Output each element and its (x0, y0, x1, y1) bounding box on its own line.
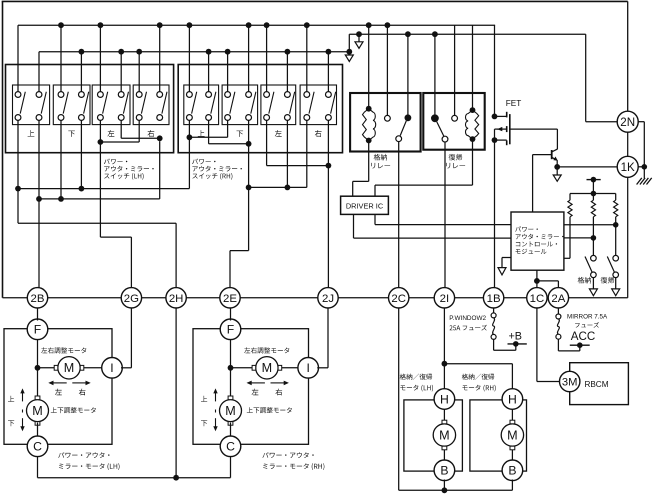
connector 2G (121, 288, 141, 308)
switch unit box 下 (222, 85, 258, 125)
node bus1 junction (187, 22, 193, 28)
svg-text:2A: 2A (551, 293, 565, 305)
svg-text:2B: 2B (31, 293, 45, 305)
wire LH-Rsw1 drop (138, 120, 140, 142)
switch 復帰 (613, 255, 619, 261)
node on RH-Rsw2 column (326, 163, 332, 169)
wire FET source to 1B (494, 140, 496, 288)
wire fuse to +B (493, 339, 495, 350)
node bus2 junction (285, 49, 291, 55)
wire LH-Usw2 drop / 2B column (38, 120, 40, 287)
wire switch feed from bus2 (138, 52, 140, 92)
wire motor common bus (38, 477, 231, 479)
switch 格納 (591, 255, 597, 261)
wire switch feed from bus1 (60, 25, 62, 92)
node 2H bus junction (173, 475, 179, 481)
switch unit label 下 (237, 131, 244, 137)
node retract feed junction (442, 361, 448, 367)
label 格納 (578, 277, 591, 284)
wire Q1 base from module (533, 154, 552, 156)
wire from 2B up the left edge (2, 1, 4, 297)
switch contact pair (36, 92, 42, 98)
wire module jog to 2A (537, 280, 559, 282)
wire RH-Rsw1 drop to net-C (306, 120, 308, 187)
wire RH-Usw2 to RH-Dsw2 link (209, 143, 249, 145)
node RH link1 junction (187, 134, 193, 140)
svg-text:2H: 2H (169, 293, 184, 305)
connector 1K (617, 156, 638, 177)
wire retract bottom bus (399, 489, 513, 491)
fuse MIRROR 7.5A (557, 308, 559, 314)
resistor R2 (592, 194, 594, 201)
svg-text:DRIVER IC: DRIVER IC (346, 201, 384, 210)
wire DRIVER IC out2 to module (374, 214, 376, 224)
wire relay K2 output to 2I (444, 142, 446, 288)
svg-text:I: I (307, 361, 310, 375)
wire 2N to 1K (627, 132, 629, 156)
switch unit box 左 (92, 85, 130, 125)
switch contact pair (58, 92, 64, 98)
wire 2H column down (175, 308, 177, 478)
svg-text:1C: 1C (530, 293, 545, 305)
wire RH-Usw1 to RH-Dsw1 link (189, 136, 227, 138)
label 上下調整モータ RH (247, 407, 292, 413)
wire net-A horizontal (y188.6) (18, 188, 189, 190)
wire RH-Usw2 drop (208, 120, 210, 143)
wire bus2 left section (39, 51, 349, 53)
label パワー・アウタ・ミラー・モータ (RH) (262, 452, 313, 458)
switch contact pair (118, 92, 124, 98)
switch unit box 下 (53, 85, 90, 125)
connector 2I (434, 288, 454, 308)
svg-text:2J: 2J (322, 293, 334, 305)
connector 2A (548, 288, 568, 308)
wire LH-Dsw2 drop to net-A (80, 120, 82, 188)
wire module to 1C (536, 270, 538, 287)
motor M (left-right) RH (256, 357, 278, 379)
node bus1 junction (98, 22, 104, 28)
page arrow below bus2 corner (348, 52, 350, 55)
node net-A at x18 (15, 186, 21, 192)
relay K2 NC contact (452, 115, 458, 121)
power outer mirror switch (RH) box (178, 65, 342, 153)
wire LH-Dsw1 drop to net-B (60, 120, 62, 198)
wire bus1 drop to FET drain (494, 25, 496, 116)
node retract bus junction (442, 487, 448, 493)
wire C(LH) to bottom bus (37, 456, 39, 477)
retract motor box LH (404, 400, 463, 471)
switch unit box 左 (261, 85, 296, 125)
label 左右調整モータ RH (244, 347, 289, 353)
connector 2N (617, 111, 638, 132)
switch unit label 右 (148, 130, 155, 137)
terminal C RH (220, 436, 241, 457)
wire bus2 upper section (349, 33, 585, 35)
connector 2B (27, 288, 47, 308)
terminal I RH (298, 358, 319, 379)
switch unit label 左 (108, 130, 115, 137)
switch contact pair (98, 92, 104, 98)
relay K2 output contact (442, 136, 448, 142)
wire DRIVER IC out1 to module (353, 214, 355, 238)
wire 2C column down (398, 308, 400, 490)
wire K1 coil to DRIVER IC (368, 141, 370, 182)
wire jog to 2G (100, 236, 131, 238)
svg-text:3M: 3M (562, 377, 578, 389)
switch contact pair (264, 92, 270, 98)
retract motor box RH (470, 400, 527, 471)
node module output junction (534, 278, 540, 284)
wire M to B LH (443, 447, 445, 462)
node bus2 junction (79, 49, 85, 55)
power tap bar (587, 179, 601, 181)
wire switch feed from bus1 (266, 25, 268, 92)
terminal C LH (27, 436, 48, 457)
ground symbol (637, 178, 642, 185)
svg-text:M: M (32, 404, 43, 418)
wire down to connector 2N (627, 1, 629, 112)
node FET drain junction (492, 114, 498, 120)
wire fuse to ACC (557, 339, 559, 351)
wire H to M RH (511, 408, 513, 424)
wire emitter to 1K (557, 166, 618, 168)
node F column junction (228, 365, 234, 371)
FET Q2 symbol (495, 115, 507, 117)
svg-text:2C: 2C (391, 293, 406, 305)
wire switch feed from bus1 (99, 25, 101, 92)
wire net-C horizontal (y187.4) (249, 186, 307, 188)
wire relay K1 coil feed (368, 25, 370, 106)
wire 1K right lead (638, 166, 644, 168)
node ACC tap (577, 342, 583, 348)
switch unit label 右 (315, 130, 322, 137)
RBCM box (570, 363, 629, 405)
transistor Q1 (551, 150, 553, 159)
terminal F RH (220, 319, 241, 340)
switch contact pair (246, 92, 252, 98)
label 格納リレー (374, 154, 387, 161)
svg-text:M: M (262, 361, 273, 375)
node bus1 K1 coil tap (366, 22, 372, 28)
node bus2 corner junction (346, 49, 352, 55)
wire 2N right lead to ground node (638, 121, 644, 123)
node bus2 junction (118, 49, 124, 55)
wire LR motor to I (278, 367, 299, 369)
switch unit box 上 (13, 85, 50, 125)
switch unit label 上 (28, 130, 35, 136)
svg-text:2N: 2N (620, 116, 635, 129)
terminal B LH (434, 460, 455, 481)
node bus2 arrow tap (356, 31, 362, 37)
switch contact pair (157, 92, 163, 98)
wire switch feed from bus2 (120, 52, 122, 92)
connector 2E (220, 288, 240, 308)
relay K1 common contact (405, 114, 412, 121)
wire FET gate to Q1 collector (510, 128, 558, 130)
wire LH-Lsw2 to LH-Rsw2 link (120, 120, 122, 138)
wire B down LH (443, 480, 445, 491)
wire net-A drop to 2H (175, 223, 177, 287)
wire LH-Rsw2 column down (159, 141, 161, 199)
wire net-A down leg (17, 189, 19, 224)
label 左右調整モータ LH (41, 347, 86, 353)
relay K1 NC contact (385, 115, 391, 121)
connector 2C (389, 288, 409, 308)
mirror motor box LH (4, 329, 112, 445)
wire net-A horizontal (y223.2) (18, 222, 176, 224)
node net-C at x287.4 (285, 185, 291, 191)
motor M (retract) RH (501, 424, 523, 446)
svg-text:2I: 2I (440, 293, 450, 305)
switch contact pair (285, 92, 291, 98)
motor M (up-down) RH (220, 400, 242, 422)
arrow 左/右 LH (52, 382, 66, 384)
wire jog to 2E (230, 250, 249, 252)
label 上下調整モータ LH (51, 407, 96, 413)
svg-text:B: B (508, 464, 516, 478)
node FET source junction (492, 137, 498, 143)
svg-text:+B: +B (509, 330, 523, 342)
switch unit box 上 (184, 85, 219, 125)
wire switch feed from bus2 (38, 52, 40, 92)
+B power bar (508, 343, 527, 345)
wire switch feed from bus2 (327, 52, 329, 92)
svg-text:ACC: ACC (571, 330, 595, 343)
svg-text:2E: 2E (223, 293, 237, 305)
label パワー・アウタ・ミラー・モータ (LH) (58, 452, 109, 458)
svg-text:H: H (508, 392, 517, 406)
node bus2 junction (136, 49, 142, 55)
arrow 上/下 LH (22, 392, 24, 401)
svg-text:B: B (440, 464, 448, 478)
switch unit label 上 (198, 130, 205, 136)
motor M (up-down) LH (27, 400, 49, 422)
wire bus1 (from 1B column) (18, 24, 495, 26)
relay K1 output contact (396, 136, 402, 142)
node net-B at x39 (36, 196, 42, 202)
wire switch feed from bus1 (248, 25, 250, 92)
node rail junction (591, 191, 597, 197)
switch contact pair (206, 92, 212, 98)
terminal H RH (502, 389, 523, 410)
node bus1 junction (58, 22, 64, 28)
wire RH-Dsw2 column down (248, 120, 250, 250)
switch contact pair (79, 92, 85, 98)
wire B down RH (511, 480, 513, 491)
label 格納／復帰モータ (LH) (400, 374, 432, 380)
label power outer mirror switch (LH) (104, 159, 127, 165)
connector 3M (560, 371, 580, 391)
wire switch feed from bus1 (159, 25, 161, 92)
wire ground stub (643, 167, 645, 178)
wire 2I column down (443, 308, 445, 391)
node bus2 K2 common tap (432, 31, 438, 37)
svg-text:H: H (440, 392, 449, 406)
node Q1 emitter junction (554, 164, 560, 170)
node net-A at x81.4 (79, 186, 85, 192)
wire M to C (230, 422, 232, 438)
relay K2 moving arm (437, 122, 444, 137)
wire 2E to F(RH) (230, 308, 232, 321)
node bus1 junction (246, 22, 252, 28)
switch contact pair (15, 92, 21, 98)
wire switch feed from bus2 (80, 52, 82, 92)
switch contact pair (187, 92, 193, 98)
ACC power bar (570, 344, 590, 346)
svg-text:F: F (34, 323, 41, 337)
switch unit box 右 (133, 85, 169, 125)
fuse P.WINDOW2 25A (493, 308, 495, 313)
page arrow below 復帰 switch (615, 278, 617, 289)
wire module left stub with page arrow (502, 257, 511, 259)
relay K1 moving arm (400, 121, 406, 136)
resistor R1 (569, 194, 571, 201)
wire F column (37, 338, 39, 399)
svg-text:M: M (439, 429, 450, 443)
node +B tap (513, 341, 519, 347)
wire switch feed from bus1 (188, 25, 190, 92)
wire I(RH) to 2J (317, 367, 328, 369)
node bus2 K1 common tap (405, 31, 411, 37)
terminal F LH (27, 319, 48, 340)
page arrow below 格納 switch (592, 278, 594, 289)
wire H to M LH (443, 408, 445, 424)
wire K2 coil to DRIVER IC (472, 139, 474, 185)
motor M (left-right) LH (58, 357, 80, 379)
wire module to R3 (564, 224, 616, 226)
wire F column (230, 338, 232, 399)
node bus1 junction (264, 22, 270, 28)
connector 1C (527, 288, 547, 308)
DRIVER IC U2 box (341, 196, 389, 214)
svg-text:I: I (110, 361, 113, 375)
wire relay K2 common feed (434, 34, 436, 114)
wire LR motor to I (81, 367, 104, 369)
svg-text:C: C (226, 440, 235, 454)
node R3 module tap (613, 222, 619, 228)
node F column junction (35, 365, 41, 371)
wire RH-Lsw1 drop (266, 120, 268, 165)
wire R1 to module (564, 257, 570, 259)
wire jog to RH retract motor (444, 363, 512, 365)
node R2 module tap (591, 235, 597, 241)
wire switch feed from bus2 (208, 52, 210, 92)
node bus2 junction (206, 49, 212, 55)
svg-text:M: M (507, 429, 518, 443)
wire relay K1 output to 2C (398, 142, 400, 288)
terminal B RH (502, 460, 523, 481)
page arrow below Q1 emitter (556, 167, 558, 175)
wire module to R2 (564, 237, 594, 239)
svg-text:2G: 2G (124, 293, 139, 305)
label 復帰リレー (449, 154, 463, 161)
wire RH-Lsw2 drop to net-C (286, 120, 288, 187)
wire 1K down to row (627, 177, 629, 297)
motor M (retract) LH (433, 424, 455, 446)
terminal I LH (102, 358, 123, 379)
wire net-B horizontal (y198.9) (39, 198, 160, 200)
relay K2 coil (470, 107, 476, 113)
label 復帰 (601, 277, 615, 284)
wire M to B RH (511, 447, 513, 462)
label 格納／復帰モータ (RH) (462, 374, 494, 380)
svg-text:M: M (225, 404, 236, 418)
node bus2 junction (225, 49, 231, 55)
arrow 上/下 RH (215, 392, 217, 401)
page arrow below bus2 node (358, 34, 360, 42)
relay K2 common contact (431, 114, 439, 122)
svg-text:MIRROR 7.5A: MIRROR 7.5A (567, 314, 608, 321)
wire resistor rail (570, 193, 616, 195)
switch contact pair (136, 92, 142, 98)
wire 1C to 3M (536, 308, 538, 382)
wire tap to rail (592, 180, 594, 194)
node on LH-Rsw2 column (157, 135, 163, 141)
wire connector row (3, 297, 28, 299)
switch contact pair (304, 92, 310, 98)
wire relay K1 NC contact feed (386, 25, 388, 115)
power outer mirror switch (LH) box (6, 65, 174, 153)
wire RH-Lsw1 to RH-Rsw2 link (y165.6) (267, 165, 329, 167)
svg-text:FET: FET (506, 99, 521, 108)
node ground tap (642, 164, 648, 170)
node net-B at x61 (58, 196, 64, 202)
node bus1 junction (304, 22, 310, 28)
wire along the top edge (2, 0, 628, 2)
wire switch feed from bus1 (17, 25, 19, 92)
arrow 左/右 RH (251, 382, 265, 384)
wire LH-Lsw1 to LH-Rsw1 link (100, 141, 139, 143)
terminal H LH (434, 389, 455, 410)
switch contact pair (326, 92, 332, 98)
node power tap (591, 177, 597, 183)
svg-text:F: F (227, 323, 234, 337)
wire C(RH) to bottom bus (230, 456, 232, 477)
switch unit label 下 (68, 131, 75, 137)
wire RH-Usw1 drop (188, 120, 190, 188)
label power outer mirror switch (RH) (192, 159, 215, 165)
node on LH-Lsw1 column (98, 139, 104, 145)
wire LH-Usw1 drop to net-A (17, 120, 19, 188)
switch unit label 左 (275, 130, 282, 137)
wire relay K1 common feed (407, 34, 409, 114)
wire RH-Rsw2 column / 2J drop (327, 120, 329, 287)
node bus1 junction (157, 22, 163, 28)
svg-text:C: C (33, 440, 42, 454)
switch unit box 右 (300, 85, 336, 125)
wire relay K2 coil feed (472, 25, 474, 107)
wire relay K2 NC contact feed (454, 25, 456, 115)
node RH link2 junction (246, 141, 252, 147)
resistor R3 (615, 194, 617, 201)
connector 1B (483, 288, 503, 308)
wire to LR motor (38, 367, 58, 369)
node bus2 junction (326, 49, 332, 55)
relay K1 coil (366, 106, 372, 112)
power outer mirror control module U1 box (511, 212, 564, 270)
svg-text:1B: 1B (487, 293, 501, 305)
wire bus2 to 2N (585, 34, 587, 122)
mirror motor box RH (193, 329, 309, 445)
wire 2B to F(LH) (37, 308, 39, 321)
wire LH-Lsw1 column down (99, 120, 101, 237)
relay K1 box (350, 93, 421, 152)
wire switch feed from bus2 (286, 52, 288, 92)
wire switch feed from bus1 (306, 25, 308, 92)
node bus1 K1 NC tap (385, 22, 391, 28)
connector 2J (318, 288, 338, 308)
svg-text:P.WINDOW2: P.WINDOW2 (449, 315, 486, 322)
